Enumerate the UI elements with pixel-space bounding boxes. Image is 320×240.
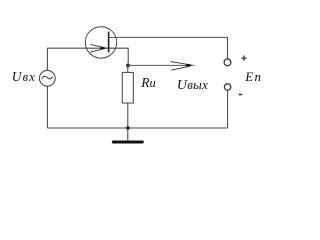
node: source/output junction dot [126, 64, 130, 68]
transistor channel bar [108, 32, 110, 53]
label Еп [245, 69, 262, 85]
wire: junction to resistor [127, 66, 129, 73]
terminal + (En) [224, 59, 231, 66]
gate arrow head [90, 45, 104, 53]
ground bar [113, 141, 142, 144]
wire: resistor bottom to bottom rail [127, 103, 129, 128]
ground stub [127, 128, 129, 142]
wire: bottom rail [47, 127, 227, 129]
label Uвх [12, 69, 36, 85]
AC source Uвх [39, 70, 55, 86]
terminal - (En) [224, 84, 230, 90]
Uвых arrow head [170, 62, 190, 71]
label Uвых [177, 77, 208, 94]
sine wave inside source [42, 76, 53, 79]
resistor Rи body [122, 72, 133, 103]
wire: source top to gate line and down to output node [47, 48, 128, 70]
Uвых arrow shaft [128, 64, 190, 66]
plus sign [241, 56, 246, 61]
transistor VT1 (FET) envelope circle [85, 27, 116, 58]
wire: source bottom to bottom rail [46, 86, 48, 128]
wire: drain to + terminal [109, 37, 228, 58]
label Rи [141, 75, 156, 91]
minus sign [239, 94, 243, 96]
wire: - terminal to bottom rail [227, 90, 229, 128]
node: bottom junction dot [126, 126, 130, 130]
